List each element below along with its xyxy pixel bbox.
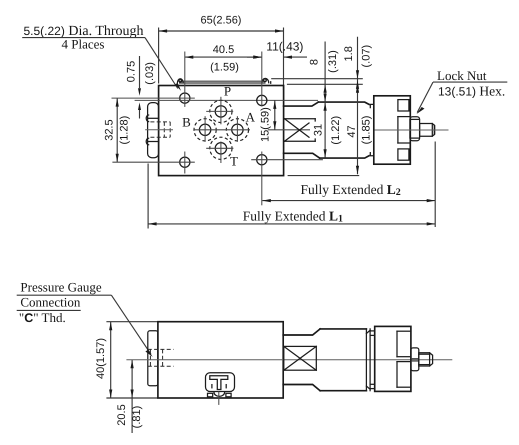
svg-text:(1.59): (1.59) (210, 62, 239, 74)
mounting hole bottom-right (251, 152, 323, 206)
svg-text:Lock Nut: Lock Nut (437, 68, 487, 83)
gauge port hidden lines (150, 122, 170, 137)
axis centerline (top view) (375, 129, 449, 131)
housing middle section (398, 117, 410, 143)
spring chamber symbol (side view) (284, 346, 317, 370)
dim 1.8 (.07) and 47 (1.85) (343, 37, 373, 175)
washer brackets (top view) (370, 104, 374, 155)
neck (side view) (283, 329, 320, 391)
A-B port centerline (194, 129, 250, 131)
port A (226, 116, 248, 142)
gauge boss centerline (145, 129, 173, 131)
washer (side view) (366, 329, 374, 391)
svg-text:(1.85): (1.85) (360, 116, 372, 145)
svg-text:Fully Extended L1: Fully Extended L1 (243, 208, 343, 224)
dim 20.5 (.81) (116, 360, 143, 433)
leader to gauge port (111, 295, 152, 357)
port B (194, 116, 216, 142)
dim 32.5 (1.28) (103, 98, 130, 162)
lock nut (side view) (411, 348, 419, 371)
svg-text:20.5: 20.5 (116, 404, 128, 425)
svg-text:47: 47 (346, 125, 358, 137)
svg-text:"C" Thd.: "C" Thd. (19, 310, 66, 325)
lock nut label (417, 68, 508, 114)
bottom reference line (288, 175, 360, 177)
valve body (side view) (158, 322, 283, 398)
svg-text:(.03): (.03) (144, 62, 156, 85)
svg-text:P: P (224, 84, 231, 99)
mounting hole top-right (257, 52, 267, 107)
housing lower cutout (side view) (397, 362, 411, 388)
pressure gauge connection label (17, 279, 112, 325)
port T (206, 137, 233, 163)
svg-text:40.5: 40.5 (213, 44, 234, 56)
gauge boss (left side of body) (148, 103, 159, 158)
mounting hole bottom-left (112, 152, 194, 174)
svg-text:32.5: 32.5 (103, 119, 115, 140)
main axis centerline (side view) (126, 359, 452, 361)
svg-text:65(2.56): 65(2.56) (201, 15, 242, 27)
adjusting screw (top view) (420, 124, 435, 137)
svg-text:1.8: 1.8 (343, 46, 355, 61)
nameplate T symbol (206, 373, 235, 392)
svg-text:40(1.57): 40(1.57) (95, 338, 107, 379)
svg-text:13(.51) Hex.: 13(.51) Hex. (438, 83, 505, 98)
svg-text:Fully Extended L2: Fully Extended L2 (301, 182, 401, 198)
neck (top view) (284, 102, 320, 158)
svg-text:(.31): (.31) (327, 50, 339, 73)
svg-text:11(.43): 11(.43) (266, 39, 303, 53)
svg-text:0.75: 0.75 (126, 61, 138, 82)
dim 11(.43) (247, 39, 307, 58)
svg-text:A: A (246, 110, 256, 125)
dim fully extended L2 (262, 182, 435, 202)
dim 15 (.59) (259, 100, 276, 142)
adjuster housing (top view) (374, 96, 411, 164)
svg-text:Connection: Connection (20, 295, 80, 310)
port P (206, 97, 233, 125)
right check-valve nub (262, 78, 271, 83)
1.8 reference lines (271, 79, 363, 85)
dim 8 (.31) and 31 (1.22) (309, 42, 343, 158)
left check-valve nub (177, 79, 183, 83)
spring chamber symbol (top view) (285, 119, 316, 141)
adjuster housing (side view) (375, 326, 411, 391)
dim fully extended L1 (148, 208, 435, 225)
dim 40.5 (1.59) (185, 44, 262, 73)
dim 0.75 (.03) (126, 56, 156, 119)
lock nut (top view, hex) (410, 117, 420, 141)
svg-text:(.81): (.81) (131, 406, 143, 429)
svg-text:Pressure Gauge: Pressure Gauge (20, 279, 101, 294)
svg-text:(1.28): (1.28) (118, 116, 130, 145)
dim 40(1.57) (95, 322, 158, 398)
housing top cutout (398, 100, 409, 111)
svg-text:(1.22): (1.22) (330, 116, 342, 145)
valve body (top view) (159, 86, 284, 176)
svg-text:B: B (182, 114, 191, 129)
svg-text:T: T (230, 154, 238, 169)
gauge boss (side view) (148, 331, 158, 386)
svg-text:(.07): (.07) (360, 45, 372, 68)
gauge port hidden lines (side view) (148, 349, 174, 366)
spring tube (side view) (320, 329, 366, 391)
svg-text:8: 8 (309, 59, 321, 65)
dim 65(2.56) (159, 15, 284, 90)
L1 left extension line (147, 164, 149, 229)
right-row hole centerline (0.75 offset reference) (135, 99, 318, 101)
label 5.5 dia through 4 places (22, 24, 145, 52)
nameplate feet (208, 392, 232, 405)
svg-text:31: 31 (313, 124, 325, 136)
leader to mounting hole (145, 38, 181, 91)
mounting hole top-left (112, 52, 195, 107)
adjusting screw (side view) (419, 353, 433, 366)
housing bottom cutout (398, 149, 409, 160)
spring tube (top view) (318, 102, 369, 158)
svg-text:15(.59): 15(.59) (259, 107, 271, 142)
top gasket plate lines (179, 80, 266, 82)
housing upper cutout (side view) (397, 331, 411, 357)
svg-text:4 Places: 4 Places (62, 36, 105, 51)
screw end extension line (434, 142, 436, 228)
